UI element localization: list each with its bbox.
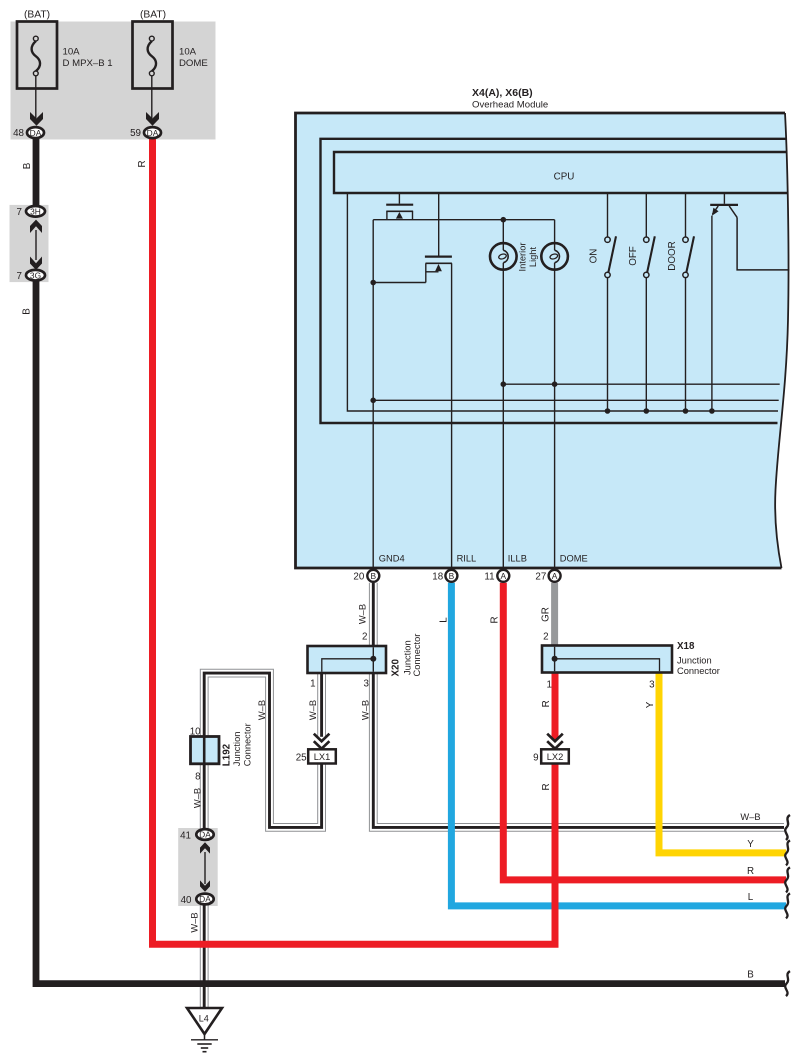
CPU box	[334, 152, 788, 193]
arrow down to 40 DA	[200, 880, 210, 891]
pin 20 B GND4	[367, 570, 379, 582]
svg-text:D MPX–B 1: D MPX–B 1	[63, 58, 113, 69]
svg-text:R: R	[541, 783, 552, 790]
svg-text:1: 1	[547, 680, 552, 691]
wire W-B X20 pin1 to LX1	[317, 672, 326, 737]
svg-text:L: L	[438, 617, 449, 623]
node switch ON rail	[605, 408, 611, 414]
svg-text:Light: Light	[528, 247, 538, 268]
svg-text:X20: X20	[390, 659, 401, 677]
svg-text:Connector: Connector	[412, 634, 422, 677]
node source join	[370, 280, 376, 286]
overhead module body X4(A), X6(B)	[296, 113, 789, 568]
arrow into connector 48 DA	[30, 112, 43, 126]
svg-text:A: A	[501, 571, 507, 581]
svg-text:X4(A), X6(B): X4(A), X6(B)	[472, 87, 533, 99]
svg-text:L4: L4	[199, 1014, 209, 1024]
wire GR DOME to X18 pin2	[551, 583, 558, 647]
svg-text:B: B	[371, 571, 377, 581]
svg-text:GND4: GND4	[379, 554, 405, 564]
svg-text:(BAT): (BAT)	[24, 10, 50, 21]
svg-text:9: 9	[533, 752, 538, 763]
svg-text:W–B: W–B	[740, 812, 760, 822]
wire W-B L192 pin8 to 41 DA	[200, 762, 209, 829]
svg-text:Interior: Interior	[517, 243, 527, 272]
wire fuse F1 output	[35, 76, 37, 118]
arrow into LX2	[547, 734, 563, 749]
wire Q1/Q2 source join	[373, 282, 426, 284]
node switch DOOR rail	[683, 408, 689, 414]
transistor Q3 (PNP)	[710, 193, 789, 411]
svg-text:2: 2	[362, 632, 367, 643]
svg-text:1: 1	[310, 679, 315, 690]
connector 59 DA	[144, 127, 161, 138]
ground L4	[187, 1008, 222, 1052]
svg-text:DOOR: DOOR	[667, 241, 678, 270]
svg-text:B: B	[21, 308, 32, 315]
svg-text:Junction: Junction	[232, 732, 242, 767]
off-page mark Y	[785, 840, 790, 865]
connector 7 3G	[26, 270, 45, 281]
junction connector L192	[191, 737, 220, 764]
svg-text:B: B	[449, 571, 455, 581]
svg-text:R: R	[489, 616, 500, 623]
svg-text:7: 7	[16, 271, 21, 282]
rail B internal	[373, 399, 779, 401]
arrow up to 41 DA	[200, 842, 210, 853]
arrow down to 3G	[30, 257, 42, 270]
wire W-B 40 DA to ground L4	[200, 905, 209, 1012]
svg-text:Y: Y	[645, 701, 656, 708]
svg-text:W–B: W–B	[358, 604, 368, 624]
svg-text:Y: Y	[747, 839, 754, 850]
connector block 3H/3G background	[10, 205, 49, 282]
switch OFF	[644, 193, 655, 411]
wire between 41 DA and 40 DA	[204, 852, 206, 884]
svg-text:L: L	[748, 892, 754, 903]
wire Y X18 pin3 to off-page right	[659, 672, 786, 853]
svg-text:Overhead Module: Overhead Module	[472, 99, 548, 110]
wire GND4 vertical	[372, 220, 374, 568]
lamp 1 interior light	[490, 220, 517, 568]
svg-text:B: B	[747, 970, 754, 981]
svg-text:W–B: W–B	[360, 700, 370, 720]
svg-text:27: 27	[535, 571, 546, 582]
svg-text:X18: X18	[677, 641, 695, 652]
arrow into connector 59 DA	[146, 112, 159, 126]
wire B connector 3G to off-page right	[36, 280, 785, 984]
junction connector X20	[308, 646, 387, 673]
connector block 41/40 DA background	[178, 828, 218, 906]
off-page mark B	[785, 971, 790, 996]
svg-text:20: 20	[353, 571, 364, 582]
svg-text:R: R	[541, 700, 552, 707]
svg-text:DA: DA	[199, 894, 211, 904]
svg-text:ILLB: ILLB	[508, 554, 527, 564]
svg-text:CPU: CPU	[554, 171, 575, 182]
arrow into LX1	[314, 734, 330, 749]
svg-text:(BAT): (BAT)	[140, 10, 166, 21]
svg-text:W–B: W–B	[308, 700, 318, 720]
wire B fuse 48 DA to connector 3H	[33, 139, 40, 207]
svg-text:40: 40	[181, 895, 192, 906]
connector 48 DA	[27, 127, 44, 138]
svg-text:OFF: OFF	[628, 246, 639, 266]
node lamp1 feed	[501, 217, 507, 223]
node switch OFF rail	[644, 408, 650, 414]
switch ON	[605, 193, 616, 411]
wire Q2 drain to RILL	[451, 263, 453, 568]
svg-text:L192: L192	[222, 743, 233, 766]
svg-text:18: 18	[432, 571, 443, 582]
svg-text:48: 48	[13, 128, 24, 139]
wire L RILL to off-page right	[451, 583, 786, 906]
svg-text:7: 7	[16, 207, 21, 218]
wire W-B GND4 to X20 pin2	[369, 583, 378, 647]
transistor Q2 (MOSFET)	[425, 193, 452, 283]
svg-text:3: 3	[649, 680, 655, 691]
wire CPU to ground rail	[347, 193, 778, 411]
svg-text:2: 2	[543, 632, 548, 643]
svg-text:LX1: LX1	[314, 752, 331, 762]
svg-text:10: 10	[190, 726, 201, 737]
wire lamp feed rail	[373, 219, 554, 221]
svg-text:W–B: W–B	[192, 788, 202, 808]
svg-text:A: A	[552, 571, 558, 581]
wire R ILLB to off-page right	[503, 583, 786, 880]
svg-text:LX2: LX2	[547, 752, 564, 762]
svg-text:3G: 3G	[30, 270, 41, 280]
transistor Q1 (MOSFET)	[386, 193, 413, 220]
off-page mark W-B	[785, 815, 790, 840]
wire R fuse 59 DA to LX2 (DOME feed)	[153, 139, 556, 944]
fuse F2 10A DOME	[133, 22, 173, 89]
module torn right edge	[775, 113, 788, 568]
svg-text:10A: 10A	[63, 47, 81, 58]
svg-text:10A: 10A	[179, 47, 197, 58]
relay block LX1	[308, 749, 336, 763]
svg-text:B: B	[22, 162, 33, 169]
fuse block background	[11, 22, 216, 140]
svg-text:Connector: Connector	[242, 723, 252, 766]
lamp 2 interior light	[541, 220, 568, 568]
svg-text:59: 59	[130, 128, 141, 139]
svg-text:R: R	[747, 866, 754, 877]
svg-text:3H: 3H	[30, 207, 41, 217]
svg-text:GR: GR	[540, 607, 551, 622]
svg-text:Junction: Junction	[677, 655, 712, 665]
node Q3 emitter rail	[709, 408, 715, 414]
connector 40 DA	[196, 894, 213, 905]
connector 7 3H	[26, 206, 45, 217]
wire W-B LX1 to L192 pin10	[204, 673, 321, 827]
node GND rail	[370, 398, 376, 404]
off-page mark L	[785, 893, 790, 918]
fuse F1 10A D MPX-B 1	[17, 22, 57, 89]
pin 11 A ILLB	[497, 570, 509, 582]
svg-text:DA: DA	[30, 128, 42, 138]
connector 41 DA	[196, 829, 213, 840]
wire fuse F2 output	[151, 76, 153, 118]
pin 27 A DOME	[549, 570, 561, 582]
wire W-B X20 pin3 to off-page right	[373, 672, 784, 827]
svg-text:8: 8	[195, 772, 201, 783]
module inner rectangle	[321, 139, 787, 423]
svg-text:W–B: W–B	[257, 700, 267, 720]
wire between 3H and 3G	[35, 230, 37, 260]
svg-text:41: 41	[180, 830, 191, 841]
svg-text:3: 3	[364, 679, 370, 690]
switch DOOR	[683, 193, 694, 411]
svg-text:DA: DA	[147, 128, 159, 138]
off-page mark R	[785, 867, 790, 892]
svg-text:DOME: DOME	[179, 58, 208, 69]
svg-text:DOME: DOME	[560, 554, 588, 564]
arrow up to 3H	[30, 220, 42, 233]
node lamp2 rail A	[552, 381, 558, 387]
node lamp1 rail A	[501, 381, 507, 387]
svg-text:ON: ON	[588, 249, 599, 264]
svg-text:Connector: Connector	[677, 666, 720, 676]
svg-text:25: 25	[296, 752, 307, 763]
junction connector X18	[542, 646, 672, 673]
relay block LX2	[541, 749, 569, 763]
wire R X18 pin1 to LX2	[552, 672, 559, 740]
svg-text:DA: DA	[199, 830, 211, 840]
pin 18 B RILL	[445, 570, 457, 582]
rail A internal	[503, 383, 779, 385]
svg-text:RILL: RILL	[457, 554, 477, 564]
svg-text:11: 11	[484, 571, 494, 582]
svg-text:R: R	[137, 160, 148, 167]
svg-text:W–B: W–B	[190, 912, 200, 932]
